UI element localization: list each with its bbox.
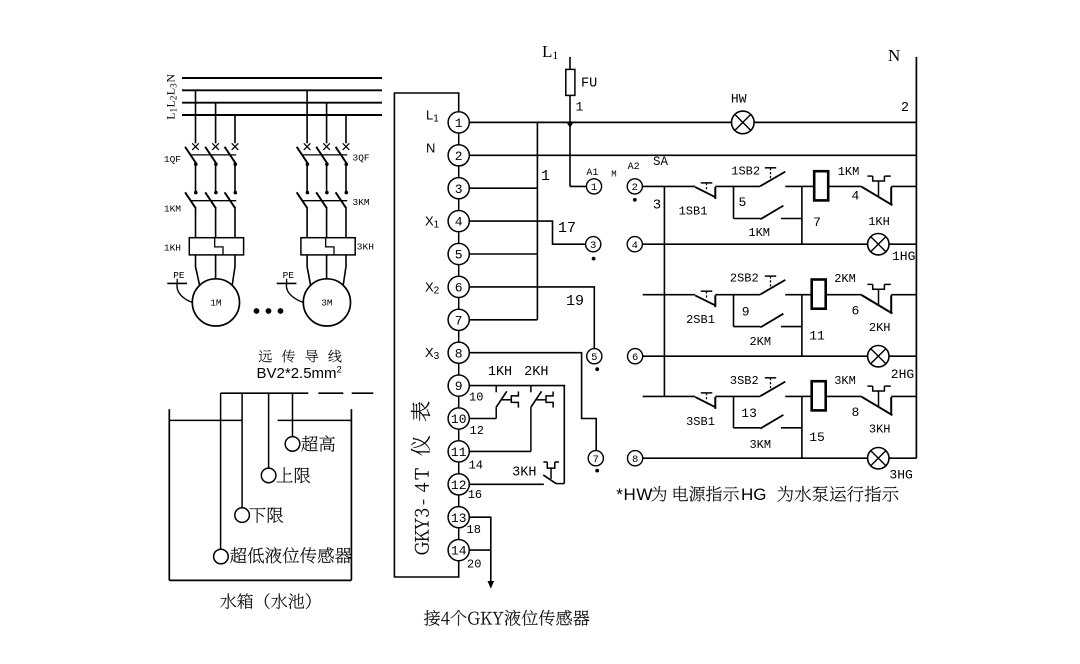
- svg-text:2KH: 2KH: [869, 321, 891, 335]
- wires 1QF to 1KM: [196, 163, 236, 192]
- sensor shang-xian (upper limit): [261, 393, 310, 483]
- svg-text:1: 1: [455, 116, 463, 131]
- SA position dots: [592, 198, 637, 473]
- wire terminal 5 to bus: [469, 253, 537, 255]
- thermal overload relay 1KH: [189, 238, 243, 255]
- svg-text:HW: HW: [731, 92, 747, 107]
- svg-text:1KM: 1KM: [838, 165, 860, 179]
- svg-text:13: 13: [741, 406, 757, 421]
- thermal overload relay 3KH: [301, 238, 355, 255]
- wires 3KH to motor 3M: [307, 255, 346, 285]
- svg-text:1: 1: [576, 100, 584, 115]
- svg-text:1: 1: [541, 168, 550, 185]
- SA contact 1: [586, 179, 601, 194]
- svg-text:17: 17: [558, 220, 576, 237]
- svg-text:N: N: [888, 46, 900, 65]
- wire 19 terminal 6 to SA contact 5: [469, 287, 594, 349]
- motor 1M: [192, 279, 239, 326]
- coil 3KM: [802, 374, 862, 420]
- svg-text:9: 9: [742, 305, 750, 320]
- terminal 9: [448, 375, 469, 396]
- svg-text:7: 7: [455, 313, 463, 328]
- wire 17 terminal 4 to SA contact 3: [469, 220, 585, 244]
- junction wire 11: [802, 295, 825, 357]
- terminal 4: [448, 211, 469, 232]
- wire terminal 10 to 1KH: [469, 418, 496, 420]
- svg-text:2HG: 2HG: [891, 367, 914, 382]
- instrument loop wire: [394, 93, 458, 577]
- svg-text:1: 1: [591, 182, 597, 194]
- terminal 13: [448, 507, 469, 528]
- svg-text:5: 5: [591, 352, 597, 364]
- svg-text:8: 8: [632, 454, 638, 466]
- terminal wire numbers 10-20: [467, 391, 484, 572]
- pushbutton 3SB2: [730, 374, 802, 397]
- svg-text:9: 9: [455, 379, 463, 394]
- svg-text:10: 10: [469, 391, 483, 405]
- svg-text:5: 5: [738, 195, 746, 210]
- svg-text:3: 3: [653, 198, 661, 214]
- power bus lines N L3 L2 L1: [182, 78, 382, 115]
- svg-text:8: 8: [851, 405, 859, 420]
- junction wire 15: [802, 396, 825, 458]
- thermal NC contact 1KH: [862, 176, 917, 229]
- lamp 3HG: [868, 448, 917, 483]
- svg-text:3: 3: [455, 182, 463, 197]
- wire SA 8 row to lamp 3HG: [643, 457, 868, 459]
- svg-text:*HW: *HW: [616, 485, 653, 504]
- svg-text:1SB2: 1SB2: [731, 165, 760, 179]
- svg-text:16: 16: [468, 488, 482, 502]
- svg-text:2KM: 2KM: [749, 335, 771, 349]
- circuit breaker 3QF: [297, 143, 350, 166]
- svg-text:4: 4: [632, 240, 638, 252]
- svg-text:N: N: [426, 141, 435, 156]
- svg-text:2KM: 2KM: [834, 272, 856, 286]
- thermal NC contact 3KH: [862, 386, 917, 436]
- thermal contact 3KH (instrument): [469, 386, 564, 485]
- wire SA 642.4 to 1SB1: [642, 185, 695, 187]
- svg-text:6: 6: [851, 304, 859, 319]
- svg-text:6: 6: [632, 352, 638, 364]
- terminal chain links: [458, 133, 460, 540]
- svg-text:3KH: 3KH: [869, 423, 891, 437]
- svg-text:2: 2: [455, 149, 463, 164]
- terminal 11: [448, 441, 469, 462]
- SA contact 4: [627, 237, 642, 252]
- aux contact 3KM: [734, 415, 802, 452]
- svg-text:1KM: 1KM: [748, 226, 770, 240]
- wire 1SB1 to junction 5: [715, 186, 746, 218]
- svg-text:12: 12: [470, 424, 484, 438]
- terminal 5: [448, 243, 469, 264]
- lamp HW power indicator: [731, 92, 754, 134]
- svg-text:3KH: 3KH: [512, 466, 536, 481]
- SA contact 2: [627, 179, 642, 194]
- svg-text:2SB2: 2SB2: [730, 272, 759, 286]
- svg-text:11: 11: [809, 329, 825, 344]
- svg-text:SA: SA: [653, 155, 669, 169]
- wire row N from terminal 2 to N rail: [469, 154, 916, 156]
- svg-text:1SB1: 1SB1: [679, 205, 708, 219]
- svg-text:3KM: 3KM: [353, 197, 370, 208]
- coil 1KM: [802, 165, 862, 204]
- svg-text:3: 3: [590, 240, 596, 252]
- svg-text:2SB1: 2SB1: [686, 313, 715, 327]
- footer note HW HG explanation: [616, 485, 898, 504]
- svg-text:4: 4: [851, 189, 859, 204]
- svg-text:14: 14: [469, 459, 483, 473]
- svg-text:13: 13: [451, 511, 467, 526]
- svg-text:3KM: 3KM: [749, 438, 771, 452]
- PE ground for 1M: [167, 270, 193, 302]
- aux contact 1KM: [734, 206, 802, 240]
- terminal 1: [448, 112, 469, 133]
- circuit breaker 1QF: [185, 143, 238, 166]
- wire 20 terminal 14 with arrow to sensors: [469, 550, 494, 589]
- wires drops to breaker 3QF: [307, 90, 346, 143]
- svg-text:11: 11: [451, 445, 467, 460]
- SA contact 7: [588, 451, 603, 466]
- label shui-xiang (water tank/pool): [220, 593, 310, 609]
- N rail vertical: [915, 57, 917, 458]
- svg-text:10: 10: [451, 412, 467, 427]
- wire terminal 8 to SA contact 7: [469, 353, 596, 451]
- wire 2SB1 to junction 9: [715, 295, 749, 327]
- svg-text:BV2*2.5mm2: BV2*2.5mm2: [257, 365, 342, 383]
- wire SA 4 row to lamp 1HG: [643, 243, 868, 245]
- svg-text:PE: PE: [283, 270, 295, 281]
- fuse FU: [566, 57, 597, 187]
- svg-text:12: 12: [451, 478, 467, 493]
- wire 3SB1 to junction 13: [715, 396, 757, 427]
- junction wire 1 to L1 row: [567, 123, 573, 128]
- svg-text:6: 6: [455, 281, 463, 296]
- svg-text:1KH: 1KH: [488, 365, 512, 380]
- wires 1KH to motor 1M: [196, 255, 236, 285]
- wire terminal 7 to bus: [469, 319, 537, 321]
- bus labels L1 L2 L3 N (rotated): [164, 74, 179, 120]
- wires drops to breaker 1QF: [196, 90, 236, 143]
- wire terminal 11 to 2KH: [469, 450, 531, 452]
- wires 3KM to 3KH: [307, 209, 346, 238]
- terminal 14: [448, 540, 469, 561]
- wire SA 642.7 to 3SB1: [643, 395, 696, 397]
- pushbutton 1SB2: [731, 165, 802, 187]
- svg-text:A2: A2: [628, 162, 640, 173]
- SA contact 6: [628, 349, 643, 364]
- wire terminal 3 to bus: [469, 187, 537, 189]
- pushbutton 2SB1: [686, 291, 715, 327]
- svg-text:5: 5: [455, 248, 463, 263]
- SA contact 3: [586, 237, 601, 252]
- thermal contact 1KH (instrument): [488, 365, 519, 419]
- contactor main contacts 3KM: [297, 191, 348, 209]
- terminal 6: [448, 276, 469, 297]
- pushbutton 1SB1: [679, 183, 716, 219]
- svg-text:FU: FU: [581, 77, 597, 92]
- svg-text:14: 14: [451, 544, 467, 559]
- thermal NC contact 2KH: [862, 284, 917, 334]
- svg-text:3HG: 3HG: [889, 468, 912, 483]
- SA contact 5: [587, 349, 602, 364]
- svg-text:3SB1: 3SB1: [686, 415, 715, 429]
- sensor xia-xian (lower limit): [235, 393, 283, 523]
- wire 1 vertical bus: [537, 122, 550, 319]
- label yuan-chuan-dao-xian (remote transmission wire): [259, 350, 342, 363]
- terminal 7: [448, 309, 469, 330]
- water tank: [169, 409, 351, 580]
- terminal 2: [448, 145, 469, 166]
- left rail wire 3: [653, 186, 665, 396]
- svg-text:HG: HG: [741, 485, 767, 504]
- sensor chao-gao (ultra-high): [285, 393, 335, 452]
- terminal 3: [448, 178, 469, 199]
- svg-text:1KH: 1KH: [164, 242, 181, 253]
- svg-text:1KM: 1KM: [164, 203, 181, 214]
- svg-text:19: 19: [566, 293, 584, 310]
- svg-text:2KH: 2KH: [524, 365, 548, 380]
- PE ground for 3M: [277, 270, 304, 302]
- svg-text:N: N: [164, 74, 178, 83]
- thermal contact 2KH (instrument): [524, 365, 553, 451]
- svg-text:PE: PE: [173, 270, 185, 281]
- rotated label GKY3-4T instrument: [411, 402, 430, 555]
- wire terminal 9 KH network top line: [469, 385, 565, 387]
- svg-text:18: 18: [467, 523, 481, 537]
- motor 3M: [303, 279, 350, 326]
- coil 2KM: [802, 272, 862, 318]
- svg-text:4: 4: [455, 215, 463, 230]
- svg-text:1M: 1M: [210, 298, 222, 309]
- svg-text:7: 7: [813, 215, 821, 230]
- svg-text:1QF: 1QF: [164, 154, 181, 165]
- sensor wire bundle: [221, 392, 374, 394]
- ellipsis dots between motors: [254, 308, 284, 314]
- junction wire 7: [802, 186, 821, 244]
- terminal 8: [448, 342, 469, 363]
- terminal 12: [448, 474, 469, 495]
- pushbutton 3SB1: [686, 393, 715, 429]
- svg-text:2: 2: [632, 182, 638, 194]
- wire row L1 from terminal 1 to N rail: [469, 121, 916, 123]
- label connect 4 GKY level sensors: [424, 610, 589, 626]
- contactor main contacts 1KM: [185, 191, 237, 209]
- svg-text:8: 8: [455, 346, 463, 361]
- svg-text:1KH: 1KH: [868, 215, 890, 229]
- wire fuse to SA contact 1: [570, 185, 586, 187]
- SA selector labels A1 M A2 SA: [586, 155, 668, 180]
- lamp 2HG: [868, 346, 917, 383]
- terminal 10: [448, 408, 469, 429]
- svg-text:3SB2: 3SB2: [730, 374, 759, 388]
- svg-text:20: 20: [467, 557, 481, 571]
- svg-text:15: 15: [809, 430, 825, 445]
- wire 18 terminal 13: [469, 517, 491, 550]
- svg-text:3KH: 3KH: [357, 241, 374, 252]
- svg-text:A1: A1: [586, 168, 598, 179]
- wire SA 642.7 to 2SB1: [643, 294, 696, 296]
- svg-text:3KM: 3KM: [834, 374, 856, 388]
- wires 3QF to 3KM: [307, 163, 346, 192]
- svg-text:1HG: 1HG: [892, 249, 915, 264]
- svg-text:3M: 3M: [321, 298, 333, 309]
- SA contact 8: [628, 451, 643, 466]
- sensor chao-di (ultra-low level sensor): [214, 393, 352, 564]
- wire SA 6 row to lamp 2HG: [643, 355, 868, 357]
- svg-text:7: 7: [593, 454, 599, 466]
- wires 1KM to 1KH: [196, 209, 236, 238]
- lamp 1HG: [868, 234, 917, 264]
- svg-text:2: 2: [901, 101, 909, 116]
- pushbutton 2SB2: [730, 272, 802, 295]
- svg-text:M: M: [611, 170, 616, 180]
- aux contact 2KM: [734, 314, 802, 349]
- svg-text:3QF: 3QF: [353, 153, 370, 164]
